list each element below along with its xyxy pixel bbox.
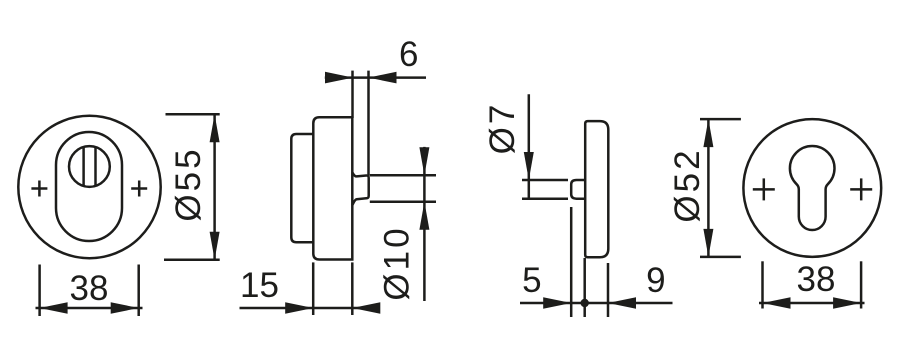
dimension 38 left rosette: extension line left [38, 265, 41, 317]
dimension 5: extension line (neck face) [570, 207, 573, 317]
dimension Ø7: leader line with arrow [528, 94, 531, 199]
dimension Ø55: extension line top [166, 113, 220, 116]
dimension 15: dimension line [240, 307, 380, 310]
dimension Ø7: arrow down [524, 152, 534, 180]
cylinder key slot line left [82, 147, 85, 186]
svg-text:Ø55: Ø55 [169, 146, 208, 221]
dimension Ø52: extension line bottom [700, 256, 741, 259]
dimension 6: arrow pointing left [369, 72, 397, 84]
screw hole cross left [31, 181, 47, 197]
svg-text:Ø10: Ø10 [378, 225, 417, 300]
dimension Ø10: extension line top [370, 174, 436, 177]
svg-text:9: 9 [646, 261, 665, 300]
dimension Ø52: arrow down [703, 229, 713, 257]
dimension 38 left rosette: arrow right [111, 302, 139, 314]
dimension Ø55: arrow down [210, 232, 220, 260]
svg-text:6: 6 [399, 35, 418, 74]
dimension Ø52: arrow up [703, 119, 713, 147]
dimension 9: arrow pointing left [608, 297, 636, 309]
dimension 15: arrow pointing right [285, 302, 313, 314]
dimension 38 key rosette: extension line left [761, 261, 764, 308]
dimension 5/9: extension line (plate back face) [583, 258, 586, 317]
security rosette front view: outer circle [18, 116, 160, 258]
dimension 38 key rosette: arrow right [833, 297, 861, 309]
dimension 15: extension line right [351, 262, 354, 315]
svg-text:Ø7: Ø7 [483, 102, 522, 155]
side view rosette 1: cylinder stub [352, 172, 368, 205]
side view rosette 1: main body [313, 117, 352, 259]
svg-text:15: 15 [240, 266, 279, 305]
key rosette front view: europrofile keyhole [790, 146, 835, 230]
dimension 5/9: junction dot [581, 299, 589, 307]
side view rosette 2: thin plate [585, 121, 608, 257]
dimension Ø7: extension line top [522, 179, 568, 182]
key rosette front view: outer circle [743, 119, 881, 257]
dimension Ø55: extension line bottom [164, 258, 220, 261]
dimension 38 left rosette: dimension line [36, 307, 143, 310]
dimension 6: extension line left [351, 71, 354, 118]
side view rosette 1: back plate [291, 134, 313, 242]
svg-text:Ø52: Ø52 [668, 147, 707, 222]
dimension 38 key rosette: dimension line [759, 302, 865, 305]
dimension 6: dimension line [325, 76, 426, 79]
dimension Ø52: extension line top [700, 118, 741, 121]
dimension Ø10: leader line [423, 147, 426, 301]
dimension 5/9: dimension line [520, 302, 673, 305]
dimension 38 left rosette: arrow left [40, 302, 68, 314]
dimension 6: arrow pointing right [325, 72, 353, 84]
screw hole cross right [131, 181, 147, 197]
dimension Ø52: dimension line [707, 119, 710, 257]
dimension 6: extension line right [367, 71, 370, 176]
dimension Ø55: arrow up [210, 114, 220, 142]
svg-text:38: 38 [797, 260, 836, 299]
dimension Ø10: arrow down [419, 147, 429, 175]
dimension 9: extension line (plate front face) [607, 263, 610, 317]
dimension Ø55: dimension line [213, 114, 216, 259]
dimension 38 left rosette: extension line right [137, 265, 140, 317]
dimension Ø7: extension line bottom [522, 197, 568, 200]
dimension Ø10: extension line bottom [370, 201, 436, 204]
dimension 38 key rosette: arrow left [763, 297, 791, 309]
svg-text:5: 5 [522, 261, 541, 300]
screw hole cross left (key rosette) [753, 178, 775, 200]
screw hole cross right (key rosette) [850, 178, 872, 200]
cylinder key slot line right [94, 147, 97, 186]
dimension 15: arrow pointing left [352, 302, 380, 314]
dimension 15: extension line left [312, 262, 315, 315]
dimension 5: arrow pointing right [543, 297, 571, 309]
dimension Ø10: arrow up [419, 202, 429, 230]
security rosette front view: cylinder cover obround [56, 132, 122, 241]
dimension 38 key rosette: extension line right [860, 261, 863, 308]
security rosette front view: cylinder core circle [69, 146, 110, 187]
side view rosette 2: neck stub [571, 180, 585, 199]
svg-text:38: 38 [70, 269, 109, 308]
